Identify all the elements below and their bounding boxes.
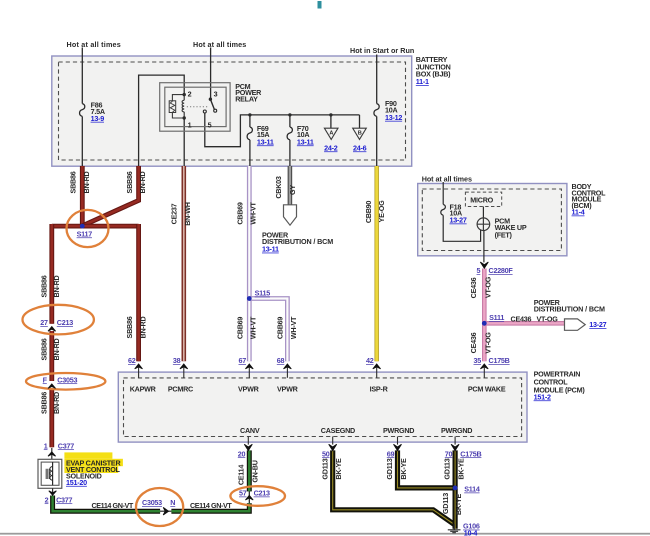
wire FET to BCM box bottom bbox=[483, 231, 485, 263]
junction S117 bbox=[67, 210, 109, 247]
wire SBB86 BN-RD S117 horizontal bar bbox=[52, 224, 139, 229]
PCM pin 38 entry bbox=[173, 356, 188, 378]
fuse F18 labels bbox=[450, 203, 467, 225]
svg-text:C213: C213 bbox=[57, 318, 73, 327]
svg-text:DISTRIBUTION / BCM: DISTRIBUTION / BCM bbox=[534, 305, 605, 314]
svg-text:GD113: GD113 bbox=[441, 493, 450, 514]
svg-text:WH-VT: WH-VT bbox=[248, 201, 257, 224]
connector C3053 (N) on GN-VT bbox=[136, 488, 183, 526]
chevron at C213 (57) bbox=[245, 495, 253, 500]
wire hot in start or run to fuse F90 bbox=[376, 55, 378, 104]
svg-text:GD113: GD113 bbox=[443, 458, 452, 479]
svg-text:CE436: CE436 bbox=[511, 315, 532, 324]
PCM pin 68 entry bbox=[277, 356, 292, 378]
svg-text:MICRO: MICRO bbox=[470, 195, 493, 204]
svg-text:1: 1 bbox=[44, 441, 48, 450]
wire hot feed to relay pin 3 bbox=[210, 48, 212, 100]
svg-text:SBB86: SBB86 bbox=[125, 171, 134, 193]
battery junction box (BJB) outline bbox=[52, 56, 412, 166]
svg-text:42: 42 bbox=[366, 356, 374, 365]
svg-text:VT-OG: VT-OG bbox=[483, 332, 492, 354]
relay dotted link bbox=[187, 106, 209, 108]
svg-text:BN-WH: BN-WH bbox=[183, 202, 192, 226]
svg-text:CE114 GN-VT: CE114 GN-VT bbox=[190, 501, 232, 510]
svg-text:CE436: CE436 bbox=[469, 277, 478, 298]
chevron at C213 (27) bbox=[48, 327, 56, 332]
triangle connector B bbox=[353, 128, 367, 152]
svg-text:1: 1 bbox=[188, 121, 192, 130]
svg-text:13-11: 13-11 bbox=[262, 245, 279, 254]
relay name label bbox=[235, 82, 262, 104]
junction S115 bbox=[247, 289, 270, 301]
svg-text:67: 67 bbox=[239, 356, 247, 365]
relay coil parallel wires bbox=[172, 95, 184, 118]
svg-text:C3053: C3053 bbox=[57, 375, 77, 384]
wire relay pin 5 to fuse bus bbox=[205, 113, 360, 147]
svg-text:GN-BU: GN-BU bbox=[251, 460, 260, 482]
svg-text:PCM WAKE: PCM WAKE bbox=[468, 384, 506, 393]
fuse F69 symbol bbox=[247, 127, 252, 140]
svg-text:151-2: 151-2 bbox=[534, 392, 551, 401]
svg-text:11-4: 11-4 bbox=[572, 208, 585, 217]
svg-text:S111: S111 bbox=[489, 313, 504, 322]
wire bus to fuse F70 bbox=[289, 115, 291, 127]
svg-text:13-27: 13-27 bbox=[450, 216, 467, 225]
BCM label bbox=[572, 182, 607, 217]
svg-text:SBB86: SBB86 bbox=[40, 338, 49, 360]
wire from hot feed to fuse F86 bbox=[81, 48, 83, 104]
chevron at C377 (1) entering solenoid bbox=[48, 452, 56, 456]
relay coil inductor bbox=[183, 95, 185, 118]
svg-text:S114: S114 bbox=[464, 485, 480, 494]
PCM pin 42 entry bbox=[366, 356, 381, 378]
wire F18 to FET bbox=[443, 215, 480, 241]
svg-text:5: 5 bbox=[208, 121, 212, 130]
svg-text:SBB86: SBB86 bbox=[40, 275, 49, 297]
svg-text:C3053: C3053 bbox=[142, 498, 162, 507]
svg-text:CE237: CE237 bbox=[169, 203, 178, 224]
svg-text:KAPWR: KAPWR bbox=[130, 384, 157, 393]
svg-text:20: 20 bbox=[238, 449, 246, 458]
svg-text:24-2: 24-2 bbox=[324, 143, 338, 152]
fuse F86 symbol bbox=[80, 104, 85, 117]
svg-text:C377: C377 bbox=[58, 441, 74, 450]
PCM pin 70 exit with C175B bbox=[445, 437, 482, 459]
powertrain control module (PCM) box bbox=[118, 372, 527, 442]
svg-text:CBK03: CBK03 bbox=[274, 176, 283, 199]
junction dot bus-F70 bbox=[288, 113, 291, 116]
svg-text:62: 62 bbox=[128, 356, 136, 365]
relay pin 3 dot bbox=[209, 98, 212, 101]
svg-text:PCMRC: PCMRC bbox=[168, 384, 193, 393]
svg-text:VT-OG: VT-OG bbox=[483, 276, 492, 298]
svg-text:Hot at all times: Hot at all times bbox=[67, 40, 121, 49]
chevron at C3053 (N) pointing right bbox=[163, 507, 168, 515]
svg-text:BN-RD: BN-RD bbox=[52, 275, 61, 297]
MICRO box bbox=[465, 192, 501, 206]
svg-text:GY: GY bbox=[288, 185, 297, 195]
PCM bottom pin names bbox=[240, 426, 472, 435]
svg-text:C175B: C175B bbox=[489, 356, 510, 365]
BJB label bbox=[416, 55, 451, 86]
svg-text:SBB86: SBB86 bbox=[69, 171, 78, 193]
svg-text:BK-YE: BK-YE bbox=[399, 458, 408, 480]
wire relay pin 1 to box bottom bbox=[183, 118, 185, 166]
svg-text:ISP-R: ISP-R bbox=[370, 384, 389, 393]
svg-text:BN-RD: BN-RD bbox=[52, 338, 61, 360]
svg-text:50: 50 bbox=[322, 449, 330, 458]
svg-text:SBB86: SBB86 bbox=[40, 392, 49, 414]
svg-text:CE114: CE114 bbox=[237, 465, 246, 486]
svg-text:VPWR: VPWR bbox=[277, 384, 299, 393]
svg-text:35: 35 bbox=[474, 356, 482, 365]
wire hot feed to fuse F18 bbox=[442, 182, 444, 204]
wire SBB86 BN-RD from F86 to S117 bbox=[80, 166, 85, 226]
svg-text:24-6: 24-6 bbox=[353, 143, 367, 152]
wire F69 to box bottom bbox=[249, 140, 251, 166]
svg-text:VPWR: VPWR bbox=[238, 384, 260, 393]
chevron at C2280F (5) bbox=[480, 262, 488, 268]
relay pin 2 dot bbox=[183, 93, 186, 96]
svg-text:GD113: GD113 bbox=[385, 458, 394, 479]
svg-text:5: 5 bbox=[477, 266, 481, 275]
svg-text:BN-RD: BN-RD bbox=[138, 316, 147, 338]
EVAP solenoid labels bbox=[66, 458, 121, 487]
svg-text:SBB86: SBB86 bbox=[125, 316, 134, 338]
wire stub C377 into solenoid bbox=[51, 448, 53, 459]
svg-text:CBB69: CBB69 bbox=[276, 317, 285, 340]
svg-text:B: B bbox=[358, 131, 362, 137]
svg-text:11-1: 11-1 bbox=[416, 77, 429, 86]
separator line bottom bbox=[0, 533, 650, 535]
svg-text:13-12: 13-12 bbox=[385, 113, 402, 122]
wire CE114 GN-VT solenoid to C3053 bbox=[53, 496, 161, 512]
svg-text:Hot at all times: Hot at all times bbox=[422, 174, 472, 183]
svg-text:WH-VT: WH-VT bbox=[289, 316, 298, 339]
svg-text:Hot at all times: Hot at all times bbox=[193, 40, 246, 49]
wire CBB69 WH-VT S115 branch to PCM pin 68 bbox=[249, 299, 287, 362]
svg-text:S115: S115 bbox=[255, 289, 271, 298]
svg-text:PWRGND: PWRGND bbox=[383, 426, 414, 435]
PCM pin 50 exit bbox=[322, 437, 337, 459]
wire SBB86 BN-RD S117 down to C213 bbox=[49, 224, 54, 324]
svg-text:2: 2 bbox=[188, 89, 192, 98]
chevron at C377 (2) leaving solenoid bbox=[49, 491, 57, 495]
fuse F18 symbol bbox=[441, 204, 446, 215]
wire CE436 VT-OG BCM to S111 to PCM pin 35 bbox=[482, 269, 487, 362]
svg-text:151-20: 151-20 bbox=[66, 478, 87, 487]
wire CBB69 WH-VT F69 to S115 to PCM pin 67 bbox=[247, 166, 252, 361]
svg-text:13-27: 13-27 bbox=[589, 320, 606, 329]
svg-text:C213: C213 bbox=[254, 489, 270, 498]
connector C3053 (F) on BN-RD bbox=[26, 373, 105, 390]
FET name label bbox=[495, 216, 527, 239]
PCM pin 67 entry bbox=[239, 356, 254, 378]
wire CE237 BN-WH relay pin 1 to PCM pin 38 bbox=[182, 166, 187, 361]
PCM top pin names bbox=[130, 384, 506, 393]
svg-text:13-11: 13-11 bbox=[297, 137, 314, 146]
yellow highlight marks bbox=[64, 452, 112, 458]
svg-text:(FET): (FET) bbox=[495, 230, 513, 239]
ground G106 bbox=[448, 522, 480, 536]
thin links in connector gaps bbox=[160, 491, 249, 511]
svg-text:WH-VT: WH-VT bbox=[248, 316, 257, 339]
svg-text:57: 57 bbox=[239, 489, 247, 498]
svg-text:N: N bbox=[170, 498, 175, 507]
svg-text:70: 70 bbox=[445, 449, 453, 458]
connector C2280F (5) bbox=[477, 266, 514, 275]
wire CE436 VT-OG S111 to banner 13-27 bbox=[484, 321, 564, 326]
wire CE114 GN-VT C3053 to C213 corner bbox=[171, 503, 249, 511]
svg-text:PWRGND: PWRGND bbox=[441, 426, 472, 435]
wire GD113 BK-YE PCM pin 69 to S114 bbox=[398, 450, 456, 488]
fuse F90 labels bbox=[385, 99, 402, 122]
wire F86 to box bottom bbox=[81, 116, 83, 166]
EVAP canister vent control solenoid bbox=[38, 459, 62, 488]
svg-text:S117: S117 bbox=[77, 229, 93, 238]
svg-text:A: A bbox=[329, 131, 333, 137]
PCM pin 69 exit bbox=[387, 437, 402, 459]
svg-text:BK-YE: BK-YE bbox=[334, 458, 343, 480]
fuse F69 labels bbox=[257, 124, 274, 146]
teal tick mark top center bbox=[318, 1, 322, 9]
svg-text:BN-RD: BN-RD bbox=[82, 171, 91, 193]
wire branch bus to triangle B bbox=[359, 115, 361, 128]
wire CBK03 GY F70 to banner bbox=[288, 166, 293, 205]
svg-text:69: 69 bbox=[387, 449, 395, 458]
fuse F70 labels bbox=[297, 124, 314, 146]
relay pin 5 terminal bbox=[203, 110, 206, 113]
PCM power relay U1 bbox=[160, 83, 230, 132]
svg-text:Hot in Start or Run: Hot in Start or Run bbox=[350, 46, 414, 55]
wire F70 to box bottom bbox=[289, 140, 291, 166]
PCM pin 35 entry with C175B bbox=[474, 356, 510, 378]
body control module (BCM) box bbox=[418, 184, 567, 256]
junction S111 bbox=[482, 313, 504, 326]
wire bus to fuse F69 bbox=[249, 115, 251, 127]
svg-text:68: 68 bbox=[277, 356, 285, 365]
svg-text:CE114 GN-VT: CE114 GN-VT bbox=[92, 501, 134, 510]
svg-text:BN-RD: BN-RD bbox=[52, 392, 61, 414]
junction dot bus-F69 bbox=[248, 113, 251, 116]
wire MICRO to FET bbox=[482, 207, 484, 219]
svg-text:GD113: GD113 bbox=[320, 458, 329, 479]
wire CBB90 YE-OG F90 to PCM pin 42 bbox=[375, 166, 379, 361]
svg-text:CE436: CE436 bbox=[469, 332, 478, 353]
wire SBB86 BN-RD C3053 to C377 bbox=[49, 389, 54, 448]
wire GD113 BK-YE PCM pin 50 to G106 bbox=[333, 450, 455, 524]
wire branch bus to triangle A bbox=[330, 115, 332, 128]
svg-text:CANV: CANV bbox=[240, 426, 260, 435]
PCM pin 62 entry bbox=[128, 356, 143, 378]
fuse F70 symbol bbox=[287, 127, 292, 140]
relay switch blade bbox=[210, 99, 214, 109]
svg-text:C377: C377 bbox=[56, 495, 72, 504]
svg-text:BK-YE: BK-YE bbox=[454, 493, 463, 515]
svg-text:RELAY: RELAY bbox=[235, 95, 258, 104]
banner connector to power distribution / BCM 13-11 (down) bbox=[262, 205, 333, 254]
svg-text:38: 38 bbox=[173, 356, 181, 365]
svg-text:3: 3 bbox=[214, 89, 218, 98]
chevron at C3053 (F) bbox=[48, 384, 56, 388]
svg-text:BK-YE: BK-YE bbox=[456, 458, 465, 480]
svg-text:13-11: 13-11 bbox=[257, 137, 274, 146]
wire SBB86 BN-RD from relay pin 2 to S117 (diagonal) bbox=[83, 166, 139, 226]
relay coil resistor bbox=[169, 101, 176, 113]
PCM wake up FET symbol bbox=[477, 218, 490, 231]
junction S114 bbox=[453, 485, 480, 494]
svg-text:2: 2 bbox=[45, 495, 49, 504]
wire SBB86 BN-RD S117 down to PCM pin 62 bbox=[136, 224, 141, 361]
svg-text:CBB69: CBB69 bbox=[235, 202, 244, 225]
wire stub solenoid bottom bbox=[52, 488, 54, 496]
junction dot bus-triangle A bbox=[329, 113, 332, 116]
wire GD113 BK-YE PCM pin 70 through S114 to G106 bbox=[453, 450, 458, 528]
triangle connector A bbox=[324, 128, 338, 152]
svg-text:13-9: 13-9 bbox=[91, 114, 105, 123]
svg-text:CBB90: CBB90 bbox=[364, 201, 373, 224]
relay pin 1 dot bbox=[183, 116, 186, 119]
connector C213 (27) on BN-RD bbox=[23, 305, 94, 335]
banner connector to power distribution / BCM 13-27 (right) bbox=[534, 298, 607, 331]
connector C377 (1) bbox=[44, 441, 74, 450]
wire F90 to box bottom bbox=[376, 116, 378, 166]
connector C377 (2) bbox=[45, 495, 73, 504]
PCM pin 20 exit bbox=[238, 437, 253, 459]
svg-text:YE-OG: YE-OG bbox=[377, 200, 386, 223]
svg-text:BN-RD: BN-RD bbox=[138, 171, 147, 193]
svg-text:VT-OG: VT-OG bbox=[537, 315, 559, 324]
wire SBB86 BN-RD C213 to C3053 bbox=[49, 331, 54, 381]
wire relay pin 2 feed (up-left-down to box bottom) bbox=[139, 75, 185, 166]
svg-text:27: 27 bbox=[40, 318, 48, 327]
svg-text:C2280F: C2280F bbox=[489, 266, 514, 275]
fuse F90 symbol bbox=[374, 104, 379, 117]
svg-text:C175B: C175B bbox=[460, 449, 481, 458]
fuse F86 labels bbox=[91, 101, 105, 123]
svg-text:CASEGND: CASEGND bbox=[321, 426, 355, 435]
wire CE114 GN-BU C213 to PCM pin 20 bbox=[247, 450, 252, 491]
PCM label bbox=[534, 370, 586, 402]
svg-text:CBB69: CBB69 bbox=[235, 317, 244, 340]
svg-text:10-4: 10-4 bbox=[464, 528, 478, 536]
connector C213 (57) on GN wire bbox=[230, 486, 285, 506]
